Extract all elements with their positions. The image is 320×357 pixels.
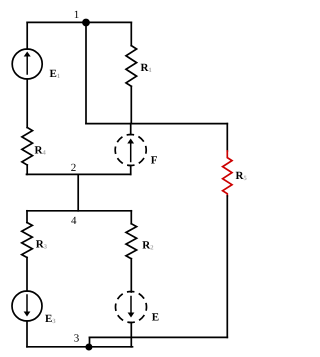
wire E3 bottom lead [26,321,28,347]
node 3 junction dot [85,344,92,351]
resistor R2 [126,224,137,259]
arrowhead E3 [24,312,31,317]
svg-text:R1: R1 [141,62,152,74]
svg-text:4: 4 [71,215,77,227]
voltage source E arrow shaft [130,297,132,314]
arrowhead E [128,313,135,318]
node 1 junction dot [82,19,90,27]
wire R1 bottom lead [130,86,132,123]
wire F bottom lead [130,166,132,175]
wire E bottom lead [130,323,132,347]
svg-text:R3: R3 [36,239,48,251]
wire R3 top lead [26,211,28,223]
wire R2 to E [130,259,132,292]
wire bottom left rail [27,346,133,348]
wire node3 jog [89,337,91,346]
svg-text:1: 1 [74,9,80,21]
svg-text:R5: R5 [236,170,248,182]
svg-text:E1: E1 [50,68,61,80]
svg-text:F: F [151,155,158,167]
wire R5 top lead [226,124,228,151]
svg-text:R4: R4 [35,144,47,156]
voltage source E1 arrow shaft [26,56,28,74]
current source F arrow shaft [130,144,132,162]
wire R5 bottom lead [226,196,228,337]
wire R4 to node2 [26,165,28,174]
wire node 2 rail [27,173,131,175]
wire node2-node4 connector [77,174,79,210]
wire mid rail [86,123,227,125]
arrowhead F [127,139,134,144]
current source F dashed circle [115,135,146,166]
wire node1 stub down [85,22,87,123]
wire node 4 rail [27,210,131,212]
arrowhead E1 [24,52,31,57]
svg-text:R2: R2 [142,239,153,251]
wire R3 to E3 [26,258,28,292]
resistor R4 [22,128,33,166]
resistor R3 [22,223,33,258]
svg-text:E3: E3 [45,313,56,325]
wire E1 bottom lead [26,79,28,128]
voltage source E1 circle [12,49,42,79]
svg-text:E: E [152,312,159,324]
wire F top lead [130,124,132,135]
resistor R1 [126,46,137,87]
voltage source E3 arrow shaft [26,295,28,312]
wire bottom stub rail [90,336,228,338]
svg-text:3: 3 [74,333,80,345]
wire R2 top lead [130,211,132,224]
voltage source E dashed circle [116,292,147,323]
resistor R5 red [223,151,232,196]
wire R1 top lead [130,22,132,45]
voltage source E3 circle [12,291,42,321]
svg-text:2: 2 [71,162,77,174]
wire top rail node1 [27,21,131,23]
wire E1 top lead [26,22,28,49]
